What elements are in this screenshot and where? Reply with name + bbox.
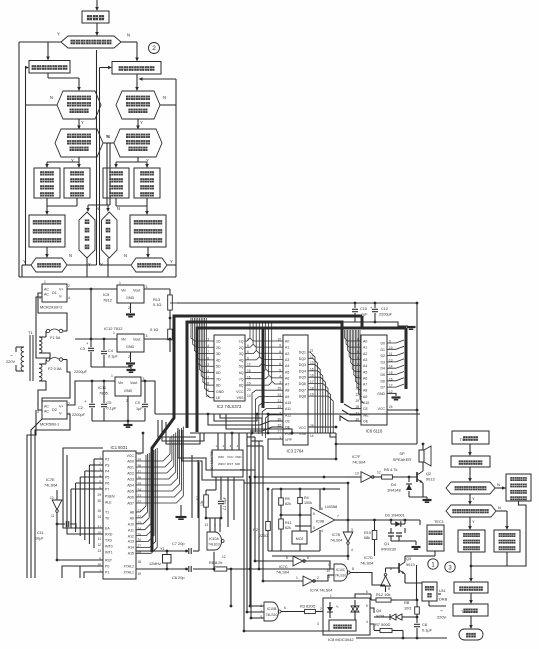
svg-text:INT1: INT1: [105, 551, 113, 555]
wire: [115, 198, 117, 206]
wire mains down left b: [31, 419, 42, 578]
wire inputs from left: [255, 560, 268, 562]
svg-text:ALE: ALE: [105, 501, 112, 505]
wire: [38, 293, 67, 331]
svg-text:AC: AC: [44, 405, 49, 409]
svg-text:9013: 9013: [406, 562, 415, 567]
resistor R13 0.1ohm: [169, 289, 171, 295]
wire: [469, 494, 471, 502]
svg-text:P6: P6: [105, 482, 109, 486]
transformer core: [29, 335, 31, 381]
capacitor C11 10uF: [57, 523, 65, 525]
svg-text:IC7D: IC7D: [364, 555, 373, 560]
svg-text:TEC1: TEC1: [434, 519, 444, 524]
svg-text:1: 1: [113, 331, 115, 335]
svg-text:2: 2: [68, 284, 70, 288]
latch IC2 74LS373: [214, 335, 245, 401]
svg-text:7: 7: [279, 356, 281, 360]
svg-text:A3: A3: [363, 358, 367, 362]
wire: [75, 338, 117, 340]
wire: [46, 198, 48, 206]
svg-text:AD7: AD7: [127, 502, 134, 506]
svg-text:Q4: Q4: [376, 608, 382, 613]
flowchart decision MOJ period changed: [446, 482, 495, 494]
wire: [342, 321, 375, 323]
wire fan into IC2 left: [191, 318, 214, 341]
svg-text:GND: GND: [126, 296, 135, 300]
svg-text:Q2: Q2: [426, 471, 431, 476]
capacitor C9 1uF: [141, 380, 145, 382]
svg-text:R9: R9: [285, 497, 290, 501]
svg-text:PSEN: PSEN: [105, 495, 115, 499]
svg-text:11: 11: [310, 349, 314, 353]
svg-text:N: N: [69, 253, 72, 258]
svg-text:A4: A4: [363, 364, 367, 368]
svg-text:VCC: VCC: [299, 426, 307, 430]
svg-text:A10: A10: [285, 401, 291, 405]
wire: [375, 322, 408, 326]
wire fan IC3 data out: [308, 352, 315, 433]
wire: [469, 444, 471, 453]
svg-text:220V: 220V: [6, 359, 15, 364]
wire: [469, 467, 471, 479]
wire: [36, 297, 50, 358]
wire feedback right: [507, 501, 526, 566]
svg-text:U11: U11: [439, 588, 446, 593]
fuse F1 5A: [45, 331, 47, 337]
wire: [42, 360, 70, 407]
svg-text:AD0: AD0: [127, 460, 134, 464]
svg-text:2D: 2D: [216, 346, 221, 350]
svg-text:Y1: Y1: [160, 547, 165, 551]
svg-text:AC: AC: [44, 410, 49, 414]
svg-text:D4: D4: [381, 367, 386, 371]
wire: [67, 288, 117, 290]
wire rail to cooler: [348, 519, 420, 521]
svg-text:A9: A9: [285, 395, 289, 399]
svg-text:Y: Y: [170, 259, 173, 264]
box MOJ: [299, 515, 301, 531]
svg-text:R3 620Ω: R3 620Ω: [300, 604, 316, 609]
wire P0 P1 bottom: [80, 566, 103, 578]
svg-text:8: 8: [352, 567, 354, 571]
circle 3: [445, 562, 455, 572]
wire: [67, 381, 115, 405]
capacitor C5 0.1uF: [103, 381, 105, 403]
svg-text:IC10A: IC10A: [209, 537, 219, 541]
svg-text:D1: D1: [52, 291, 57, 295]
svg-text:R5 4.7k: R5 4.7k: [384, 467, 397, 472]
svg-text:MOJ: MOJ: [296, 537, 304, 541]
svg-text:6: 6: [313, 512, 315, 516]
svg-text:D3 1N4001: D3 1N4001: [385, 513, 405, 518]
wire: [92, 420, 145, 422]
svg-text:IC7E: IC7E: [46, 477, 55, 482]
inverter IC7A 74LS04: [263, 580, 303, 582]
wire: [319, 611, 323, 613]
svg-text:C6 20p: C6 20p: [172, 575, 185, 580]
wire vcc rail y303: [177, 302, 417, 304]
svg-text:11: 11: [98, 537, 102, 541]
svg-text:A7: A7: [363, 383, 367, 387]
resistor R5 4.7k: [373, 476, 378, 478]
svg-text:1N4148: 1N4148: [387, 488, 401, 493]
optotriac IC8 MOC3042: [323, 598, 370, 635]
svg-text:MCR291B=2: MCR291B=2: [40, 305, 62, 310]
svg-text:INT0: INT0: [105, 545, 113, 549]
svg-text:Vin: Vin: [118, 381, 123, 385]
svg-text:1μF: 1μF: [136, 407, 143, 411]
svg-text:Q1: Q1: [384, 541, 389, 546]
wire: [67, 455, 103, 534]
svg-text:DQ8: DQ8: [299, 395, 306, 399]
svg-text:IC6 6116: IC6 6116: [366, 429, 383, 434]
wire: [46, 247, 48, 255]
wire: [396, 599, 417, 601]
svg-text:A12: A12: [128, 535, 134, 539]
svg-text:VSS: VSS: [236, 396, 244, 400]
wire IC3 VCC VSS right: [308, 426, 336, 428]
svg-text:2200μF: 2200μF: [379, 313, 393, 317]
svg-text:LM358: LM358: [325, 504, 338, 509]
wire opamp out: [335, 519, 348, 521]
capacitor C1 10uF: [220, 498, 222, 500]
flowchart box scale up PO high time A: [34, 168, 60, 198]
svg-text:220Ω: 220Ω: [259, 534, 268, 538]
wire mains down left c: [35, 414, 70, 578]
svg-text:GND: GND: [216, 390, 224, 394]
svg-text:R10: R10: [364, 531, 371, 535]
svg-text:1: 1: [119, 281, 121, 285]
svg-text:P2: P2: [105, 458, 109, 462]
svg-text:12: 12: [377, 471, 381, 475]
wire: [335, 433, 337, 459]
transformer secondary lower: [39, 364, 42, 381]
flowchart decision MOJ period increased: [446, 505, 496, 517]
wire: [86, 258, 88, 277]
svg-text:SCR: SCR: [376, 614, 384, 619]
capacitor C3 2200uF: [90, 339, 92, 347]
resistor R1 10k: [206, 489, 216, 491]
ram IC6 6116: [361, 335, 387, 425]
wire: [100, 264, 132, 266]
svg-text:10μF: 10μF: [35, 537, 44, 541]
svg-text:IC10B: IC10B: [267, 607, 277, 611]
wire: [355, 594, 371, 598]
svg-text:1μF: 1μF: [361, 313, 368, 317]
wire +5V from IC11: [145, 381, 155, 414]
wire: [130, 303, 132, 313]
svg-text:4: 4: [68, 296, 70, 300]
svg-text:10: 10: [326, 569, 330, 573]
svg-text:GND: GND: [124, 389, 133, 393]
wire: [295, 525, 311, 527]
flowchart box set period increase flag: [458, 530, 485, 552]
svg-text:C8: C8: [422, 622, 427, 627]
svg-text:PFI: PFI: [240, 468, 245, 472]
flowchart decision MOJ period flag changed right: [116, 91, 160, 119]
resistor R9 62k: [280, 489, 282, 495]
svg-text:13: 13: [97, 549, 101, 553]
svg-text:2: 2: [317, 576, 319, 580]
wire: [96, 23, 98, 32]
wire: [26, 104, 58, 106]
svg-text:VDD: VDD: [235, 455, 242, 459]
flowchart decision decrease PO duty right: [114, 129, 162, 157]
svg-text:IC4 MAX705: IC4 MAX705: [210, 451, 214, 470]
wire: [47, 73, 49, 78]
svg-text:13: 13: [204, 523, 208, 527]
svg-text:0.1μF: 0.1μF: [108, 355, 118, 359]
wire IC3 control pins: [248, 421, 283, 425]
svg-text:VCC: VCC: [378, 407, 386, 411]
flowchart decision MOJ on: [31, 258, 67, 272]
svg-text:IC8 MOC3042: IC8 MOC3042: [328, 637, 354, 642]
wire rail y483: [244, 482, 348, 484]
svg-text:N: N: [124, 253, 127, 258]
svg-text:6: 6: [279, 362, 281, 366]
svg-text:T0: T0: [105, 517, 109, 521]
opamp power rail top: [272, 488, 340, 490]
wire: [144, 338, 170, 340]
svg-text:OE: OE: [363, 419, 369, 423]
wire: [169, 316, 171, 325]
svg-text:P5: P5: [105, 476, 109, 480]
svg-text:A8: A8: [130, 511, 134, 515]
svg-text:A6: A6: [363, 376, 367, 380]
svg-text:A0: A0: [285, 340, 289, 344]
svg-text:9: 9: [328, 563, 330, 567]
wire: [419, 520, 421, 525]
wire flowchart bottom return: [19, 276, 176, 278]
svg-text:24: 24: [138, 527, 142, 531]
svg-text:Vin: Vin: [121, 338, 126, 342]
svg-text:D5: D5: [381, 373, 386, 377]
flowchart box scale down PO high time B: [64, 168, 90, 198]
svg-text:2200μF: 2200μF: [72, 413, 86, 417]
svg-text:Y: Y: [57, 32, 60, 37]
svg-text:D7: D7: [381, 386, 386, 390]
svg-text:2: 2: [128, 355, 130, 359]
svg-text:74LS10: 74LS10: [266, 613, 278, 617]
flowchart start wire: [96, 0, 98, 9]
svg-text:10: 10: [50, 496, 54, 500]
svg-text:74LS04: 74LS04: [44, 483, 58, 488]
svg-text:2: 2: [152, 45, 156, 52]
svg-text:AD3: AD3: [127, 478, 134, 482]
wire IC3 PGM VPP loop: [268, 432, 283, 434]
svg-text:IC7F: IC7F: [352, 454, 361, 459]
svg-text:1Q: 1Q: [239, 340, 244, 344]
svg-text:IC7A 74LS04: IC7A 74LS04: [310, 589, 332, 593]
svg-text:IC2 74LS373: IC2 74LS373: [217, 404, 242, 409]
flowchart box set count init: [451, 456, 490, 467]
ground: [130, 367, 132, 369]
svg-text:SPEAKER: SPEAKER: [393, 457, 412, 462]
ground: [412, 547, 421, 549]
wire thick bus B: [197, 328, 406, 432]
svg-text:Y: Y: [140, 120, 143, 125]
svg-text:XTAL2: XTAL2: [124, 565, 134, 569]
resistor R11 62k: [280, 515, 282, 519]
svg-text:6D: 6D: [216, 371, 221, 375]
nand IC10A 74LS10: [206, 517, 221, 519]
svg-text:IC5: IC5: [103, 292, 110, 297]
svg-text:5: 5: [279, 368, 281, 372]
svg-text:A2: A2: [285, 352, 289, 356]
flowchart decision cutoff timeout: [102, 212, 118, 258]
wire: [470, 552, 472, 566]
wire: [160, 104, 176, 106]
svg-text:IC7B: IC7B: [332, 533, 341, 537]
crystal Y1 12MHz: [136, 550, 167, 552]
svg-text:R11: R11: [285, 521, 292, 525]
svg-text:12: 12: [97, 543, 101, 547]
svg-text:Q3: Q3: [406, 556, 411, 561]
wire RST: [57, 559, 103, 561]
svg-text:25: 25: [138, 533, 142, 537]
wire: [422, 444, 424, 450]
svg-text:RST: RST: [105, 559, 113, 563]
wire: [130, 352, 132, 362]
svg-text:N: N: [497, 482, 500, 487]
svg-text:Y: Y: [23, 259, 26, 264]
wire mains down left a: [27, 410, 36, 578]
svg-text:VCC: VCC: [227, 455, 234, 459]
wire IC4 top pins: [217, 433, 219, 450]
svg-text:0.1μF: 0.1μF: [107, 407, 117, 411]
svg-text:AD4: AD4: [127, 484, 134, 488]
ground: [127, 421, 129, 424]
svg-text:11: 11: [327, 575, 331, 579]
wire: [470, 566, 472, 579]
svg-text:~: ~: [440, 608, 443, 613]
opamp power rail bottom: [268, 550, 320, 552]
wire: [18, 42, 20, 277]
flowchart box P2 low: [112, 62, 161, 75]
svg-text:MR: MR: [235, 462, 241, 466]
flowchart box scale up PO high time C: [103, 168, 129, 198]
capacitor C12 2200uF: [374, 303, 376, 308]
wire IC6 GND: [387, 393, 396, 396]
wire IC6 control: [344, 404, 361, 409]
svg-text:6: 6: [366, 590, 368, 594]
svg-text:A9: A9: [363, 395, 367, 399]
svg-text:A6: A6: [285, 376, 289, 380]
wire maze elbows to right: [158, 420, 196, 437]
svg-text:2: 2: [128, 306, 130, 310]
wire: [144, 288, 170, 290]
resistor R2 220: [267, 489, 269, 518]
resistor R4 100k: [299, 489, 301, 495]
circle 1: [428, 559, 438, 569]
svg-text:C4: C4: [108, 349, 113, 353]
svg-text:Y: Y: [472, 519, 475, 524]
wire: [470, 616, 472, 626]
ground: [180, 505, 182, 516]
svg-text:5Q: 5Q: [239, 365, 244, 369]
wire: [90, 289, 92, 339]
wire vcc rail top: [170, 302, 177, 304]
svg-text:C3: C3: [80, 347, 85, 351]
wire: [22, 264, 31, 266]
flowchart terminator return: [459, 629, 483, 640]
ground: [126, 315, 135, 317]
svg-text:1: 1: [330, 594, 332, 598]
wire: [137, 119, 139, 126]
wire: [127, 396, 129, 421]
svg-text:N: N: [127, 33, 130, 38]
flowchart box PO output square wave left: [29, 215, 65, 247]
svg-text:DQ6: DQ6: [299, 382, 306, 386]
wire rail y414: [155, 413, 420, 415]
svg-text:A2: A2: [363, 352, 367, 356]
svg-text:4: 4: [366, 620, 368, 624]
svg-text:220V: 220V: [437, 615, 446, 620]
svg-text:A8: A8: [285, 389, 289, 393]
svg-text:10: 10: [277, 338, 281, 342]
flowchart box scale down PO high time D: [134, 168, 160, 198]
svg-text:8Q: 8Q: [239, 384, 244, 388]
svg-text:2Q: 2Q: [239, 346, 244, 350]
svg-text:3: 3: [351, 528, 353, 532]
svg-text:74LS04: 74LS04: [352, 460, 366, 465]
svg-text:10: 10: [247, 394, 251, 398]
svg-text:29: 29: [97, 493, 101, 497]
svg-text:C5: C5: [107, 401, 112, 405]
wire: [38, 381, 46, 410]
svg-text:Vout: Vout: [133, 289, 140, 293]
svg-text:RB: RB: [404, 600, 410, 605]
svg-text:5: 5: [286, 556, 288, 560]
svg-text:7: 7: [337, 515, 339, 519]
wire: [103, 142, 110, 144]
svg-text:DQ7: DQ7: [299, 388, 306, 392]
svg-text:RST: RST: [227, 462, 233, 466]
svg-text:T1: T1: [28, 330, 33, 335]
resistor RB 10: [416, 600, 418, 604]
wire: [147, 247, 149, 255]
svg-text:1: 1: [111, 374, 113, 378]
bridge rectifier D1 MCR291B: [42, 284, 67, 302]
svg-text:8D: 8D: [216, 384, 221, 388]
svg-text:A1: A1: [285, 346, 289, 350]
resistor R6 8.2k: [210, 568, 214, 570]
wire rail y433: [190, 432, 336, 434]
wire fan IC6 address: [345, 330, 362, 341]
flowchart box counter clear: [454, 582, 488, 593]
svg-text:P0: P0: [105, 565, 109, 569]
svg-text:18: 18: [138, 560, 142, 564]
svg-text:12: 12: [222, 555, 226, 559]
svg-text:IC9B: IC9B: [316, 520, 325, 524]
svg-text:N: N: [498, 505, 501, 510]
svg-text:DQ2: DQ2: [299, 357, 306, 361]
wire thick bus C: [187, 322, 342, 428]
svg-text:Vout: Vout: [133, 338, 140, 342]
label circle 2: [149, 43, 160, 54]
svg-text:62k: 62k: [285, 526, 291, 530]
svg-text:N: N: [50, 95, 53, 100]
wire: [91, 366, 131, 368]
wire thick bus B2: [405, 328, 408, 389]
wire: [78, 119, 80, 126]
ground: [407, 327, 416, 329]
svg-text:6Q: 6Q: [239, 371, 244, 375]
svg-text:A9: A9: [130, 517, 134, 521]
svg-text:C7 20p: C7 20p: [172, 541, 185, 546]
svg-text:EA: EA: [105, 527, 110, 531]
